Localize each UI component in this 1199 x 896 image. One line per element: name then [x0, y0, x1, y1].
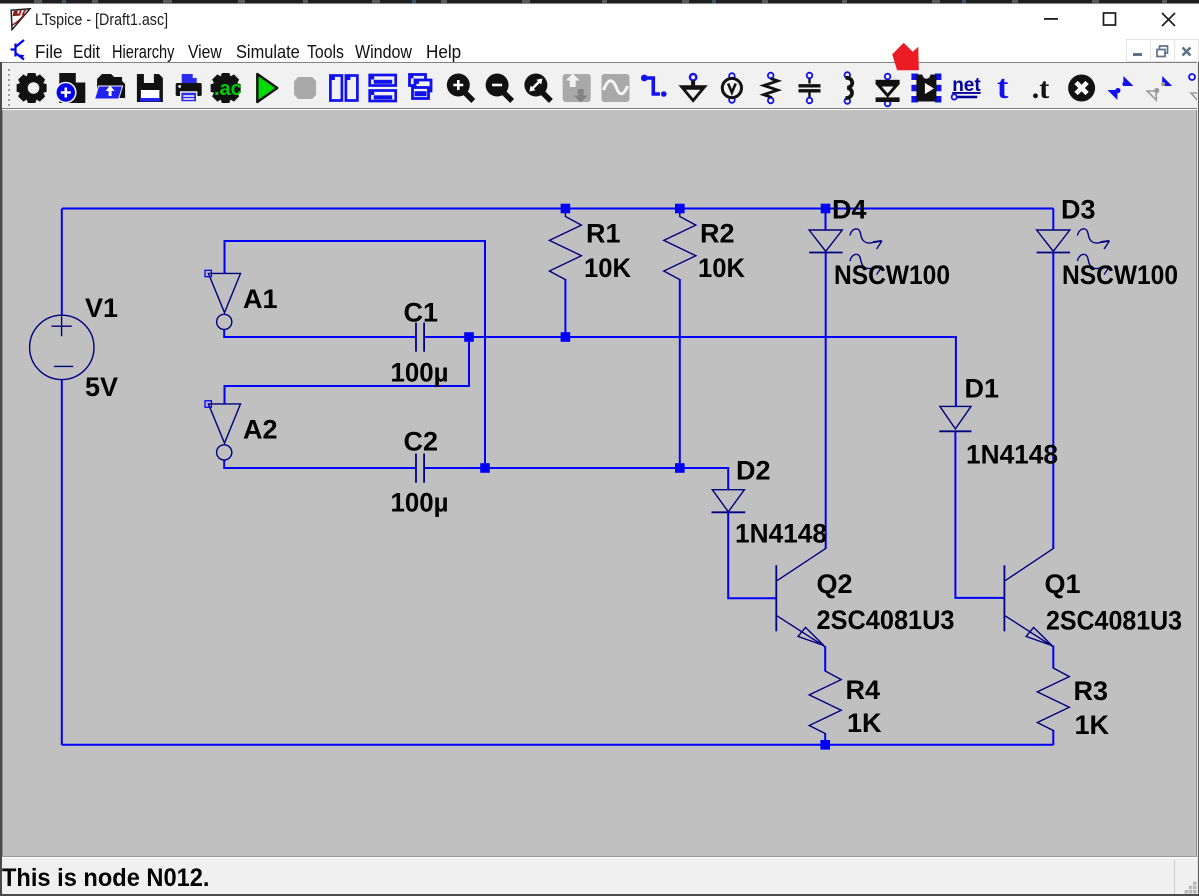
- wire D3 cathode to Q1 collector: [1052, 252, 1054, 549]
- svg-text:D1: D1: [965, 374, 1000, 404]
- svg-text:V1: V1: [85, 293, 118, 323]
- save button: [137, 74, 163, 102]
- svg-text:A2: A2: [243, 415, 278, 445]
- capacitor C1 plates: [416, 323, 424, 352]
- svg-text:1K: 1K: [847, 708, 882, 738]
- window right border: [1196, 110, 1197, 856]
- transistor Q2 body: [775, 565, 777, 631]
- clipped tool button at right edge: [1189, 74, 1199, 102]
- control panel gear button: [17, 73, 47, 103]
- wire top rail: [62, 208, 1053, 210]
- capacitor tool button: [799, 73, 821, 104]
- status resize grip: [1184, 881, 1197, 894]
- svg-text:100µ: 100µ: [391, 488, 449, 518]
- diode D2 body: [712, 490, 744, 512]
- wire Q1 emitter to R3: [1052, 646, 1054, 669]
- junction R2 bottom: [675, 463, 685, 473]
- svg-text:NSCW100: NSCW100: [834, 260, 950, 290]
- svg-text:1K: 1K: [1075, 710, 1110, 740]
- resistor R4 body: [809, 671, 841, 734]
- text tool button: [997, 69, 1009, 106]
- junction R4 ground rail: [820, 740, 830, 750]
- window title: [35, 10, 168, 30]
- title bar: [0, 4, 1199, 38]
- wire R2 bottom lead: [679, 279, 681, 468]
- ground tool button: [679, 74, 708, 103]
- junction top rail / R2: [675, 204, 685, 214]
- autorange pan button (disabled): [563, 74, 591, 103]
- zoom out button: [486, 74, 512, 102]
- transistor Q1 body: [1003, 565, 1005, 631]
- wire junction N to A2 input: [225, 337, 470, 404]
- svg-text:D4: D4: [832, 195, 867, 225]
- svg-text:Q1: Q1: [1045, 569, 1081, 599]
- run button: [257, 74, 277, 102]
- spice directive button: [1032, 72, 1050, 105]
- svg-text:2SC4081U3: 2SC4081U3: [1046, 606, 1182, 636]
- .ac simulate settings button: [211, 73, 242, 103]
- svg-text:10K: 10K: [584, 253, 631, 283]
- junction top rail / D4: [821, 204, 831, 214]
- LED D3 body: [1037, 230, 1070, 251]
- inverter A1 input port square: [205, 270, 211, 276]
- svg-text:100µ: 100µ: [391, 358, 449, 388]
- component tool button (selected): [911, 74, 941, 103]
- window left border: [0, 62, 2, 894]
- svg-text:A1: A1: [243, 284, 278, 314]
- status bar: [0, 856, 1199, 895]
- junction node N012 at C1 output: [464, 332, 474, 342]
- voltage source V1 body: [30, 315, 94, 379]
- close button: [1158, 4, 1180, 34]
- halt button (disabled): [294, 77, 316, 99]
- cascade windows button: [410, 75, 432, 99]
- cut tool button: [1068, 75, 1095, 102]
- top clipped strip of background window: [0, 0, 1199, 4]
- LTspice logo: [9, 7, 33, 31]
- wire C2 to D2: [425, 468, 729, 490]
- junction R1 bottom: [561, 332, 571, 342]
- resistor R3 body: [1037, 668, 1069, 731]
- menu bar: [0, 38, 1199, 62]
- svg-text:C2: C2: [404, 427, 439, 457]
- LED D4 light arrows: [850, 229, 882, 249]
- new schematic button: [56, 73, 86, 103]
- wire tool button: [641, 75, 667, 98]
- wire A1 input from top: [225, 241, 486, 468]
- wire A2 output to C2: [224, 460, 415, 468]
- svg-text:D2: D2: [736, 456, 771, 486]
- svg-text:R2: R2: [700, 219, 735, 249]
- svg-text:1N4148: 1N4148: [966, 440, 1058, 470]
- wire R4 to ground rail: [824, 733, 826, 745]
- zoom full extents button: [524, 74, 551, 102]
- wire left rail to V1 top: [61, 209, 63, 316]
- diode D1 body: [940, 406, 971, 429]
- resistor R2 body: [664, 209, 696, 280]
- zoom in button: [447, 74, 474, 102]
- MDI child buttons: [1126, 39, 1151, 62]
- svg-text:.t: .t: [1032, 72, 1050, 105]
- wire bottom rail: [62, 744, 1054, 746]
- inductor tool button: [845, 72, 853, 104]
- drag tool button (disabled): [1147, 76, 1172, 100]
- diode tool button: [876, 74, 900, 107]
- tile horizontally button: [370, 75, 396, 101]
- capacitor C2 plates: [416, 454, 424, 483]
- wire D1 cathode to Q1 base: [955, 431, 1004, 598]
- svg-text:D3: D3: [1061, 195, 1096, 225]
- inverter A2 input port square: [205, 401, 211, 407]
- tile vertically button: [330, 76, 357, 101]
- resistor R1 body: [549, 209, 581, 280]
- svg-text:R4: R4: [846, 675, 881, 705]
- print button: [176, 74, 202, 102]
- LED D4 body: [809, 230, 842, 251]
- inverter A2 body: [208, 404, 240, 443]
- wire left rail V1 bottom to ground rail: [61, 380, 63, 746]
- child doc transistor icon: [10, 38, 28, 62]
- svg-text:net: net: [952, 75, 981, 96]
- svg-text:NSCW100: NSCW100: [1062, 260, 1178, 290]
- wire R3 to ground rail: [1052, 730, 1054, 745]
- wire R1 bottom lead: [564, 279, 566, 337]
- wire D4 cathode to Q2 collector: [825, 252, 827, 549]
- svg-text:t: t: [997, 69, 1009, 106]
- svg-text:C1: C1: [404, 298, 439, 328]
- LED D3 light arrows: [1078, 229, 1110, 249]
- maximize button: [1099, 4, 1121, 34]
- svg-text:R1: R1: [586, 219, 621, 249]
- open button: [95, 74, 126, 99]
- resistor tool button: [764, 73, 778, 104]
- mouse cursor red arrow: [888, 40, 924, 71]
- net name tool button: [952, 75, 982, 100]
- junction top rail / R1: [561, 204, 571, 214]
- wire D2 cathode to Q2 base: [728, 512, 776, 598]
- autorange waveform button (disabled): [602, 74, 630, 102]
- svg-text:R3: R3: [1074, 676, 1109, 706]
- svg-text:1N4148: 1N4148: [735, 519, 827, 549]
- wire D3 anode stub: [1052, 209, 1054, 231]
- wire D4 anode stub: [825, 209, 827, 231]
- svg-text:5V: 5V: [85, 372, 118, 402]
- svg-text:Q2: Q2: [817, 569, 853, 599]
- copy tool button: [1107, 76, 1133, 100]
- svg-text:2SC4081U3: 2SC4081U3: [817, 605, 955, 635]
- inverter A1 body: [208, 273, 240, 312]
- toolbar grip dots: [8, 69, 10, 106]
- svg-text:10K: 10K: [698, 253, 745, 283]
- wire C1 to D1 column: [425, 337, 956, 406]
- minimize button: [1040, 4, 1062, 34]
- wire A1 output to C1: [224, 330, 415, 337]
- toolbar: [0, 62, 1199, 109]
- junction C2 output column: [480, 463, 490, 473]
- svg-text:.ac: .ac: [214, 78, 242, 100]
- wire Q2 emitter to R4: [824, 646, 826, 672]
- label net tool button: [722, 73, 741, 103]
